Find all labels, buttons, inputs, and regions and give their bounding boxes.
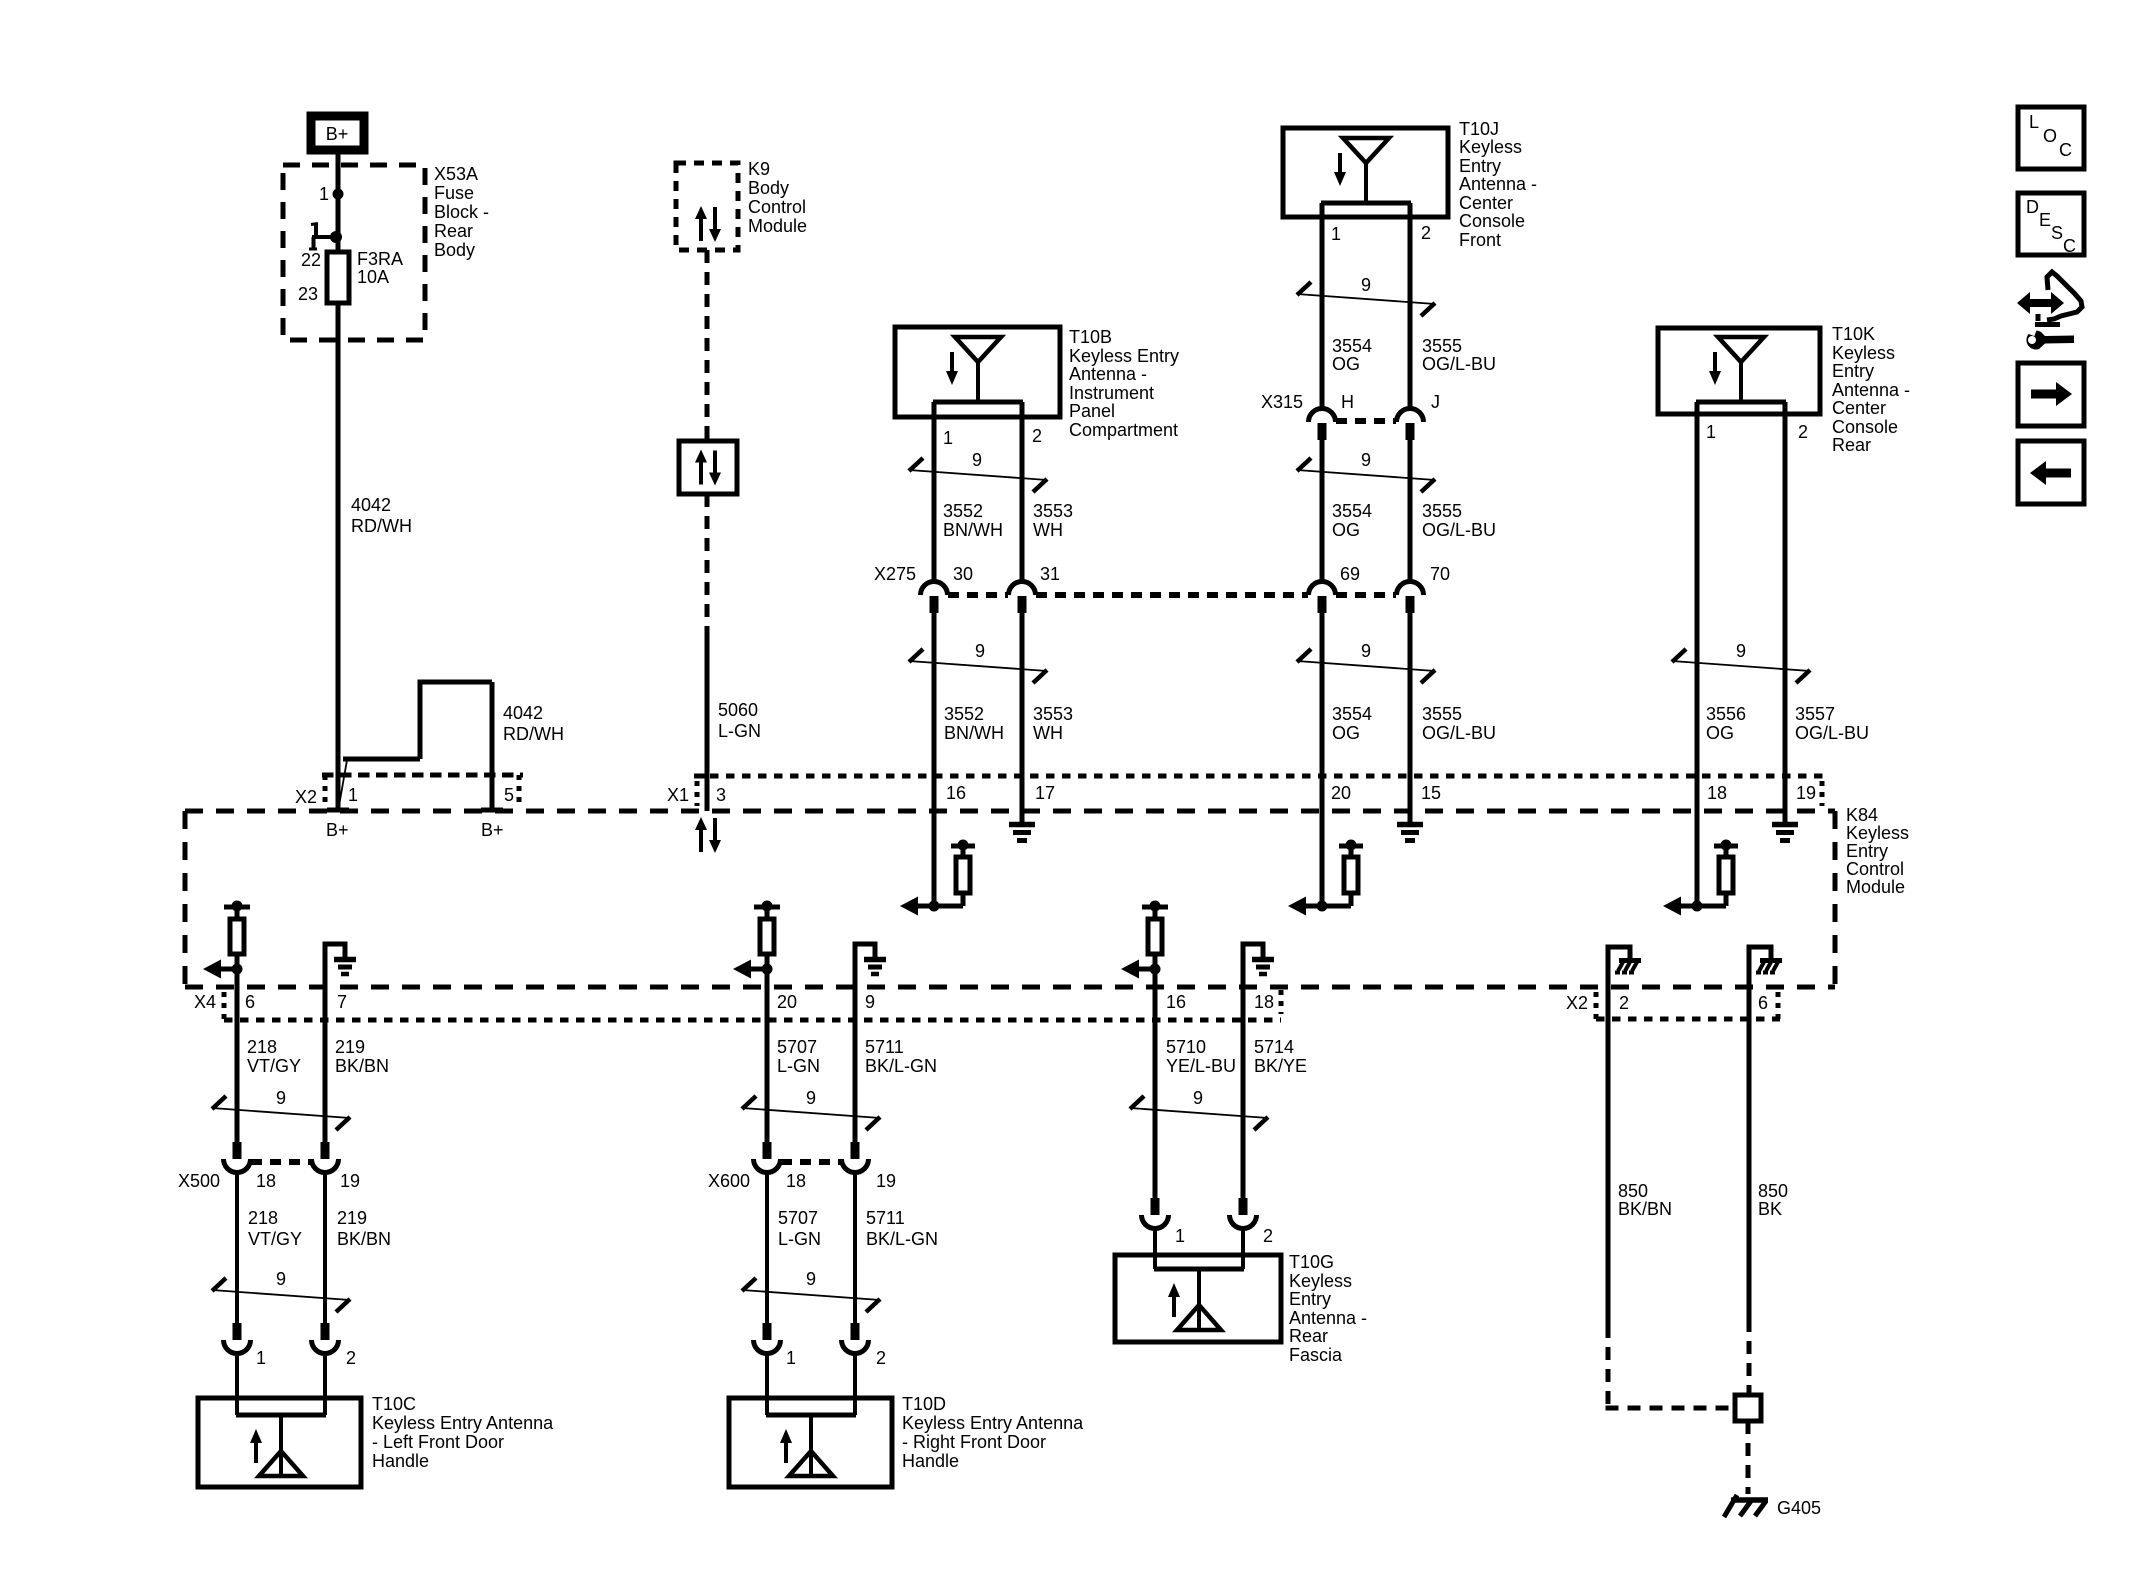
svg-text:218: 218 bbox=[248, 1208, 278, 1228]
wire 219 BK/BN lower bbox=[323, 1172, 327, 1323]
connector X275 pin 30 bbox=[921, 582, 948, 614]
T10D label bbox=[902, 1394, 1084, 1471]
svg-text:1: 1 bbox=[319, 184, 329, 204]
svg-text:6: 6 bbox=[1758, 993, 1768, 1013]
twisted pair r3 T10J col bbox=[1297, 641, 1435, 683]
svg-text:T10G: T10G bbox=[1289, 1252, 1334, 1272]
svg-text:15: 15 bbox=[1421, 783, 1441, 803]
svg-text:Entry: Entry bbox=[1846, 841, 1888, 861]
svg-text:10A: 10A bbox=[357, 267, 389, 287]
wire 5710 bbox=[1153, 1020, 1158, 1199]
svg-text:J: J bbox=[1431, 392, 1440, 412]
svg-text:9: 9 bbox=[806, 1269, 816, 1289]
serial data box arrows bbox=[695, 450, 721, 486]
X2 top labels bbox=[295, 785, 514, 807]
svg-text:219: 219 bbox=[335, 1037, 365, 1057]
wire 850 BK solid bbox=[1747, 1019, 1752, 1319]
svg-text:Keyless Entry: Keyless Entry bbox=[1069, 346, 1179, 366]
T10C label bbox=[372, 1394, 554, 1471]
T10B keyless entry antenna instrument panel box bbox=[895, 327, 1060, 417]
svg-text:5710: 5710 bbox=[1166, 1037, 1206, 1057]
svg-text:Entry: Entry bbox=[1832, 361, 1874, 381]
connector X275 pin 70 bbox=[1397, 582, 1424, 614]
T10G terminal cups bbox=[1142, 1198, 1274, 1246]
svg-text:3555: 3555 bbox=[1422, 704, 1462, 724]
svg-text:3554: 3554 bbox=[1332, 704, 1372, 724]
icon back arrow box bbox=[2018, 441, 2084, 504]
T10D terminal cups bbox=[754, 1323, 887, 1368]
svg-text:18: 18 bbox=[1707, 783, 1727, 803]
svg-text:19: 19 bbox=[340, 1171, 360, 1191]
connector X500 bbox=[178, 1142, 360, 1191]
wire 3553 lower segment bbox=[1020, 613, 1025, 822]
svg-text:69: 69 bbox=[1340, 564, 1360, 584]
labels 5710 YE/L-BU bbox=[1166, 1037, 1236, 1076]
labels 5711 BK/L-GN lower bbox=[866, 1208, 938, 1249]
wire 5707 upper bbox=[765, 1020, 770, 1142]
chassis ground X2 pin 2 bbox=[1608, 947, 1641, 1019]
dashed wire splice to G405 bbox=[1746, 1421, 1751, 1494]
svg-text:X1: X1 bbox=[667, 785, 689, 805]
dashed wire 850 BK/BN to splice bbox=[1606, 1325, 1736, 1408]
twisted pair 5707/5711 upper bbox=[742, 1088, 880, 1130]
wire label 3553 WH lower bbox=[1033, 704, 1073, 743]
svg-text:X275: X275 bbox=[874, 564, 916, 584]
wire 218 VT/GY upper bbox=[235, 1020, 240, 1142]
connector X315 pin H bbox=[1309, 409, 1336, 441]
svg-text:Keyless: Keyless bbox=[1459, 137, 1522, 157]
wire 3554 lower segment bbox=[1320, 613, 1325, 906]
antenna driver pin 16 bbox=[900, 840, 975, 916]
svg-text:Center: Center bbox=[1832, 398, 1886, 418]
svg-text:F3RA: F3RA bbox=[357, 249, 403, 269]
svg-text:5711: 5711 bbox=[865, 1037, 904, 1057]
ground symbol pin 19 bbox=[1772, 811, 1798, 841]
svg-text:Body: Body bbox=[748, 178, 789, 198]
svg-text:BK/L-GN: BK/L-GN bbox=[866, 1229, 938, 1249]
svg-text:1: 1 bbox=[1331, 224, 1341, 244]
chassis ground X2 pin 6 bbox=[1749, 947, 1782, 1019]
svg-text:Antenna -: Antenna - bbox=[1832, 380, 1910, 400]
svg-text:Console: Console bbox=[1459, 211, 1525, 231]
K84 module dashed boundary bbox=[185, 811, 1835, 989]
node 1 junction dot bbox=[333, 189, 344, 200]
svg-text:Antenna -: Antenna - bbox=[1289, 1308, 1367, 1328]
svg-text:2: 2 bbox=[876, 1348, 886, 1368]
svg-text:2: 2 bbox=[1421, 223, 1431, 243]
svg-text:2: 2 bbox=[1263, 1226, 1273, 1246]
svg-text:19: 19 bbox=[1796, 783, 1816, 803]
svg-text:2: 2 bbox=[346, 1348, 356, 1368]
connector X275 labels bbox=[874, 564, 1450, 584]
T10J antenna symbol bbox=[1321, 138, 1411, 203]
svg-text:9: 9 bbox=[1361, 641, 1371, 661]
svg-text:20: 20 bbox=[1331, 783, 1351, 803]
svg-text:E: E bbox=[2039, 210, 2051, 230]
X2 bottom labels bbox=[1566, 993, 1768, 1013]
svg-text:OG/L-BU: OG/L-BU bbox=[1422, 354, 1496, 374]
svg-text:3555: 3555 bbox=[1422, 501, 1462, 521]
wire label 3556 OG bbox=[1706, 704, 1746, 743]
svg-text:BK/BN: BK/BN bbox=[337, 1229, 391, 1249]
svg-text:9: 9 bbox=[1736, 641, 1746, 661]
svg-text:20: 20 bbox=[777, 992, 797, 1012]
labels 5707 L-GN upper bbox=[777, 1037, 820, 1076]
svg-text:850: 850 bbox=[1758, 1181, 1788, 1201]
labels 218 VT/GY upper bbox=[247, 1037, 301, 1076]
labels 5711 BK/L-GN upper bbox=[865, 1037, 937, 1076]
svg-text:RD/WH: RD/WH bbox=[351, 516, 412, 536]
dashed wire from K9 bbox=[705, 250, 710, 441]
antenna driver X4 pin 6 bbox=[203, 901, 250, 1021]
svg-text:OG: OG bbox=[1332, 354, 1360, 374]
svg-text:K84: K84 bbox=[1846, 805, 1878, 825]
svg-text:6: 6 bbox=[245, 992, 255, 1012]
svg-text:S: S bbox=[2051, 223, 2063, 243]
wire label 3553 WH upper bbox=[1033, 501, 1073, 540]
wire label 3554 OG lower bbox=[1332, 704, 1372, 743]
wire label 3552 BN/WH lower bbox=[944, 704, 1004, 743]
svg-text:18: 18 bbox=[256, 1171, 276, 1191]
svg-text:1: 1 bbox=[348, 785, 358, 805]
svg-text:WH: WH bbox=[1033, 520, 1063, 540]
svg-text:BK/BN: BK/BN bbox=[1618, 1199, 1672, 1219]
svg-text:L: L bbox=[2029, 112, 2039, 132]
svg-text:Center: Center bbox=[1459, 193, 1513, 213]
svg-text:1: 1 bbox=[1175, 1226, 1185, 1246]
wire 4042 RD/WH from B+ through fuse to X2 pin 1 bbox=[336, 150, 341, 808]
wire T10C pin1 stub bbox=[235, 1353, 239, 1415]
svg-text:5714: 5714 bbox=[1254, 1037, 1294, 1057]
dashed wire 850 BK to splice bbox=[1747, 1319, 1752, 1395]
wire 3555 lower segment bbox=[1408, 613, 1413, 822]
twisted pair T10J r1 bbox=[1297, 275, 1435, 316]
K9 data arrows bbox=[695, 206, 721, 242]
K9 body control module dashed box bbox=[676, 163, 738, 250]
T10B antenna symbol bbox=[933, 337, 1023, 402]
svg-text:7: 7 bbox=[337, 992, 347, 1012]
svg-text:1: 1 bbox=[256, 1348, 266, 1368]
svg-text:Keyless Entry Antenna: Keyless Entry Antenna bbox=[372, 1413, 554, 1433]
fuse block X53A dashed box bbox=[283, 165, 425, 340]
wire 5714 bbox=[1241, 1020, 1246, 1199]
svg-text:OG: OG bbox=[1332, 520, 1360, 540]
svg-text:3557: 3557 bbox=[1795, 704, 1835, 724]
svg-text:3554: 3554 bbox=[1332, 336, 1372, 356]
connector X600 bbox=[708, 1142, 896, 1191]
wire 3554 segment 1 bbox=[1320, 203, 1325, 410]
ground X4 pin 9 bbox=[855, 944, 886, 1020]
svg-text:T10K: T10K bbox=[1832, 324, 1875, 344]
svg-text:BK/BN: BK/BN bbox=[335, 1056, 389, 1076]
svg-text:D: D bbox=[2026, 197, 2039, 217]
svg-text:Rear: Rear bbox=[1832, 435, 1871, 455]
svg-text:4042: 4042 bbox=[351, 495, 391, 515]
svg-text:3552: 3552 bbox=[943, 501, 983, 521]
svg-text:- Right Front Door: - Right Front Door bbox=[902, 1432, 1046, 1452]
svg-text:16: 16 bbox=[1166, 992, 1186, 1012]
svg-text:OG/L-BU: OG/L-BU bbox=[1422, 520, 1496, 540]
ground symbol pin 15 bbox=[1397, 811, 1423, 841]
svg-text:Compartment: Compartment bbox=[1069, 420, 1178, 440]
svg-text:3554: 3554 bbox=[1332, 501, 1372, 521]
wire 219 BK/BN upper bbox=[323, 1020, 328, 1142]
T10G label bbox=[1289, 1252, 1367, 1365]
wire T10D pin2 stub bbox=[853, 1353, 857, 1415]
svg-text:9: 9 bbox=[276, 1088, 286, 1108]
connector X315 pin J bbox=[1397, 409, 1424, 441]
svg-text:H: H bbox=[1341, 392, 1354, 412]
wire 218 VT/GY lower bbox=[235, 1172, 239, 1323]
svg-text:9: 9 bbox=[865, 992, 875, 1012]
svg-text:Keyless: Keyless bbox=[1846, 823, 1909, 843]
svg-text:2: 2 bbox=[1619, 993, 1629, 1013]
T10D antenna symbol bbox=[766, 1415, 856, 1476]
svg-text:Keyless Entry Antenna: Keyless Entry Antenna bbox=[902, 1413, 1084, 1433]
svg-text:Rear: Rear bbox=[434, 221, 473, 241]
T10C terminal cups bbox=[224, 1323, 357, 1368]
connector X4 dotted row bbox=[224, 990, 1281, 1020]
svg-text:Fuse: Fuse bbox=[434, 183, 474, 203]
wire label 3555 OG/L-BU upper bbox=[1422, 336, 1496, 374]
icon next arrow box bbox=[2018, 363, 2084, 426]
connector X275 link dashes bbox=[948, 592, 1396, 598]
svg-text:OG: OG bbox=[1332, 723, 1360, 743]
svg-text:9: 9 bbox=[1193, 1088, 1203, 1108]
wire 5711 lower bbox=[853, 1172, 857, 1323]
svg-text:4042: 4042 bbox=[503, 703, 543, 723]
svg-text:9: 9 bbox=[1361, 275, 1371, 295]
svg-text:5060: 5060 bbox=[718, 700, 758, 720]
svg-text:Entry: Entry bbox=[1459, 156, 1501, 176]
wire label 3554 OG mid bbox=[1332, 501, 1372, 540]
svg-text:9: 9 bbox=[975, 641, 985, 661]
connector X315 labels bbox=[1261, 392, 1440, 412]
svg-text:17: 17 bbox=[1035, 783, 1055, 803]
X4 row labels bbox=[194, 992, 1274, 1012]
svg-text:218: 218 bbox=[247, 1037, 277, 1057]
labels 5707 L-GN lower bbox=[778, 1208, 821, 1249]
svg-text:1: 1 bbox=[943, 428, 953, 448]
connector X275 pin 69 bbox=[1309, 582, 1336, 614]
svg-text:Keyless: Keyless bbox=[1832, 343, 1895, 363]
wire 5707 lower bbox=[765, 1172, 769, 1323]
svg-text:- Left Front Door: - Left Front Door bbox=[372, 1432, 504, 1452]
svg-text:Rear: Rear bbox=[1289, 1326, 1328, 1346]
svg-text:C: C bbox=[2059, 140, 2072, 160]
twisted pair T10B col bbox=[909, 450, 1047, 492]
svg-text:3552: 3552 bbox=[944, 704, 984, 724]
T10J keyless entry antenna center console front box bbox=[1283, 128, 1448, 217]
svg-text:BN/WH: BN/WH bbox=[944, 723, 1004, 743]
svg-text:VT/GY: VT/GY bbox=[248, 1229, 302, 1249]
svg-text:T10C: T10C bbox=[372, 1394, 416, 1414]
svg-text:850: 850 bbox=[1618, 1181, 1648, 1201]
T10D keyless entry antenna right front door handle box bbox=[729, 1398, 892, 1487]
svg-text:3556: 3556 bbox=[1706, 704, 1746, 724]
svg-text:X500: X500 bbox=[178, 1171, 220, 1191]
svg-text:5707: 5707 bbox=[777, 1037, 817, 1057]
K84 label bbox=[1846, 805, 1909, 897]
svg-text:18: 18 bbox=[1254, 992, 1274, 1012]
svg-text:30: 30 bbox=[953, 564, 973, 584]
svg-text:5: 5 bbox=[504, 785, 514, 805]
dashed wire below serial data box bbox=[705, 494, 710, 628]
svg-text:YE/L-BU: YE/L-BU bbox=[1166, 1056, 1236, 1076]
T10C keyless entry antenna left front door handle box bbox=[198, 1398, 361, 1487]
svg-text:B+: B+ bbox=[481, 820, 504, 840]
svg-text:Antenna -: Antenna - bbox=[1459, 174, 1537, 194]
svg-text:T10J: T10J bbox=[1459, 119, 1499, 139]
svg-text:Module: Module bbox=[1846, 877, 1905, 897]
T10K keyless entry antenna center console rear box bbox=[1658, 328, 1820, 414]
svg-text:9: 9 bbox=[972, 450, 982, 470]
svg-text:Keyless: Keyless bbox=[1289, 1271, 1352, 1291]
svg-text:1: 1 bbox=[1706, 422, 1716, 442]
T10G keyless entry antenna rear fascia box bbox=[1115, 1255, 1281, 1342]
svg-text:OG: OG bbox=[1706, 723, 1734, 743]
svg-text:BK/YE: BK/YE bbox=[1254, 1056, 1307, 1076]
svg-text:Handle: Handle bbox=[372, 1451, 429, 1471]
antenna driver X4 pin 16 bbox=[1121, 901, 1168, 1021]
svg-text:219: 219 bbox=[337, 1208, 367, 1228]
svg-text:L-GN: L-GN bbox=[718, 721, 761, 741]
wire label 4042 RD/WH right bbox=[503, 703, 564, 744]
svg-text:Module: Module bbox=[748, 216, 807, 236]
twisted pair 5707/5711 lower bbox=[742, 1269, 880, 1312]
wire 3554 segment 2 bbox=[1320, 440, 1325, 582]
ground G405 bbox=[1724, 1495, 1821, 1518]
T10C antenna symbol bbox=[236, 1415, 326, 1476]
svg-text:3: 3 bbox=[716, 785, 726, 805]
wire label 3557 OG/L-BU bbox=[1795, 704, 1869, 743]
connector X2 bottom dotted notch bbox=[1596, 992, 1780, 1019]
svg-text:X2: X2 bbox=[1566, 993, 1588, 1013]
svg-text:Front: Front bbox=[1459, 230, 1501, 250]
X1 pin 3 terminal tick bbox=[696, 774, 709, 779]
labels 218 VT/GY lower bbox=[248, 1208, 302, 1249]
B+ terminal tick pin5 bbox=[481, 808, 503, 813]
wire label 4042 RD/WH upper bbox=[351, 495, 412, 536]
twisted pair T10K col bbox=[1672, 641, 1810, 683]
svg-text:OG/L-BU: OG/L-BU bbox=[1795, 723, 1869, 743]
wire 5060 L-GN solid bbox=[705, 628, 710, 811]
wire 3557 OG/L-BU bbox=[1783, 402, 1788, 822]
svg-text:L-GN: L-GN bbox=[777, 1056, 820, 1076]
svg-text:18: 18 bbox=[786, 1171, 806, 1191]
svg-text:Entry: Entry bbox=[1289, 1289, 1331, 1309]
svg-text:X4: X4 bbox=[194, 992, 216, 1012]
wire 3552 upper segment bbox=[932, 402, 937, 582]
wire 3553 upper segment bbox=[1020, 402, 1025, 582]
T10J label bbox=[1459, 119, 1537, 250]
twisted pair 218/219 upper bbox=[212, 1088, 350, 1130]
svg-text:BN/WH: BN/WH bbox=[943, 520, 1003, 540]
svg-text:T10D: T10D bbox=[902, 1394, 946, 1414]
svg-text:K9: K9 bbox=[748, 159, 770, 179]
T10K label bbox=[1832, 324, 1910, 455]
X1 row labels bbox=[667, 783, 1816, 805]
labels 850 BK/BN bbox=[1618, 1181, 1672, 1219]
svg-text:BK: BK bbox=[1758, 1199, 1782, 1219]
twisted pair 218/219 lower bbox=[212, 1269, 350, 1312]
svg-text:X600: X600 bbox=[708, 1171, 750, 1191]
connector X275 pin 31 bbox=[1009, 582, 1036, 614]
svg-text:23: 23 bbox=[298, 284, 318, 304]
connector X1 dotted row bbox=[694, 776, 1824, 806]
K9 label bbox=[748, 159, 807, 236]
svg-text:Body: Body bbox=[434, 240, 475, 260]
ground X4 pin 7 bbox=[325, 944, 356, 1020]
twisted pair T10J r2 bbox=[1297, 450, 1435, 492]
svg-text:Panel: Panel bbox=[1069, 401, 1115, 421]
antenna driver pin 20 bbox=[1288, 840, 1363, 916]
B+ terminal tick pin1 bbox=[327, 808, 349, 813]
svg-text:9: 9 bbox=[276, 1269, 286, 1289]
svg-text:3555: 3555 bbox=[1422, 336, 1462, 356]
wire label 3552 BN/WH upper bbox=[943, 501, 1003, 540]
connector X315 link bbox=[1336, 418, 1396, 424]
svg-text:19: 19 bbox=[876, 1171, 896, 1191]
svg-text:O: O bbox=[2043, 126, 2057, 146]
wire T10C pin2 stub bbox=[323, 1353, 327, 1415]
svg-text:Control: Control bbox=[1846, 859, 1904, 879]
labels 219 BK/BN upper bbox=[335, 1037, 389, 1076]
serial data arrows below pin 3 bbox=[695, 817, 721, 853]
serial data box bbox=[679, 441, 737, 494]
icon LOC box bbox=[2018, 107, 2084, 169]
labels 219 BK/BN lower bbox=[337, 1208, 391, 1249]
svg-text:VT/GY: VT/GY bbox=[247, 1056, 301, 1076]
svg-text:Handle: Handle bbox=[902, 1451, 959, 1471]
fuse clip hook bbox=[309, 224, 342, 250]
svg-text:BK/L-GN: BK/L-GN bbox=[865, 1056, 937, 1076]
wire label 3554 OG upper bbox=[1332, 336, 1372, 374]
svg-text:Fascia: Fascia bbox=[1289, 1345, 1343, 1365]
icon DESC box bbox=[2018, 193, 2084, 256]
svg-text:Block -: Block - bbox=[434, 202, 489, 222]
svg-text:3553: 3553 bbox=[1033, 501, 1073, 521]
ground X4 pin 18 bbox=[1243, 944, 1274, 1020]
connector X2 top dotted notch bbox=[322, 775, 523, 808]
svg-text:5711: 5711 bbox=[866, 1208, 905, 1228]
wire 3556 OG bbox=[1695, 402, 1700, 906]
fuse F3RA 10A bbox=[327, 249, 403, 303]
wire 3555 segment 2 bbox=[1408, 440, 1413, 582]
svg-text:C: C bbox=[2063, 236, 2076, 256]
svg-text:X2: X2 bbox=[295, 787, 317, 807]
svg-text:9: 9 bbox=[806, 1088, 816, 1108]
antenna driver pin 18 bbox=[1663, 840, 1738, 916]
step wire 4042 RD/WH to X2 pin 5 bbox=[339, 682, 492, 808]
svg-text:Instrument: Instrument bbox=[1069, 383, 1154, 403]
svg-text:X315: X315 bbox=[1261, 392, 1303, 412]
svg-text:B+: B+ bbox=[326, 124, 349, 144]
wire 3552 lower segment bbox=[932, 613, 937, 906]
T10B label bbox=[1069, 327, 1179, 440]
twisted pair 5710/5714 bbox=[1130, 1088, 1268, 1130]
svg-text:L-GN: L-GN bbox=[778, 1229, 821, 1249]
T10K antenna symbol bbox=[1696, 337, 1786, 402]
svg-text:OG/L-BU: OG/L-BU bbox=[1422, 723, 1496, 743]
svg-text:RD/WH: RD/WH bbox=[503, 724, 564, 744]
wire 3555 segment 1 bbox=[1408, 203, 1413, 410]
svg-text:Control: Control bbox=[748, 197, 806, 217]
svg-text:3553: 3553 bbox=[1033, 704, 1073, 724]
svg-text:Console: Console bbox=[1832, 417, 1898, 437]
wire T10G pin2 stub bbox=[1241, 1228, 1245, 1269]
wire label 3555 OG/L-BU mid bbox=[1422, 501, 1496, 540]
